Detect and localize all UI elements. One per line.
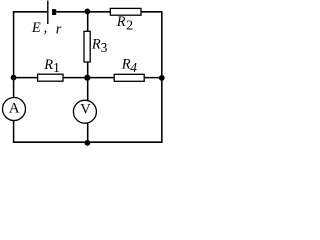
svg-text:R: R bbox=[91, 36, 101, 52]
svg-text:R: R bbox=[116, 14, 126, 30]
node: junction dot left rail / middle wire bbox=[11, 75, 17, 81]
battery E,r long plate bbox=[47, 1, 49, 24]
battery E,r short thick plate bbox=[52, 9, 56, 15]
node: junction dot bottom (V to bottom wire) bbox=[85, 140, 91, 146]
wire top-left from left rail to battery bbox=[13, 11, 47, 13]
wire middle left rail to R1 bbox=[14, 77, 38, 79]
resistor R2 box bbox=[110, 8, 141, 15]
resistor R3 box bbox=[84, 31, 90, 62]
svg-text:3: 3 bbox=[101, 40, 108, 55]
svg-text:A: A bbox=[9, 100, 20, 116]
resistor R4 box bbox=[114, 74, 144, 81]
node: junction dot top (R3 to top wire) bbox=[85, 9, 91, 15]
svg-text:4: 4 bbox=[130, 60, 137, 75]
svg-text:1: 1 bbox=[53, 60, 60, 75]
ammeter A circle bbox=[3, 98, 26, 121]
wire left rail upper segment bbox=[13, 11, 15, 97]
svg-text:E: E bbox=[31, 20, 41, 36]
node: junction dot right rail / middle wire bbox=[159, 75, 165, 81]
wire battery to R2 bbox=[56, 11, 110, 13]
wire right rail bbox=[161, 11, 163, 143]
wire bottom bbox=[13, 141, 163, 143]
svg-text:R: R bbox=[43, 57, 53, 73]
wire R1 to R4 through center node bbox=[63, 77, 114, 79]
resistor R1 box bbox=[38, 74, 63, 81]
svg-text:2: 2 bbox=[126, 19, 133, 34]
svg-text:r: r bbox=[56, 22, 62, 38]
wire left rail lower segment bbox=[13, 121, 15, 143]
svg-text:V: V bbox=[80, 102, 91, 118]
svg-text:,: , bbox=[44, 20, 48, 36]
node: junction dot center (R3/V/middle wire) bbox=[84, 75, 90, 81]
wire R3 to center node bbox=[87, 62, 89, 78]
wire R4 to right rail bbox=[144, 77, 162, 79]
wire center node down to voltmeter bbox=[87, 78, 89, 101]
wire voltmeter to bottom wire bbox=[87, 123, 89, 143]
wire top node down to R3 bbox=[87, 11, 89, 31]
svg-text:R: R bbox=[121, 57, 131, 73]
voltmeter V circle bbox=[73, 100, 96, 123]
wire R2 to top-right corner bbox=[141, 11, 163, 13]
